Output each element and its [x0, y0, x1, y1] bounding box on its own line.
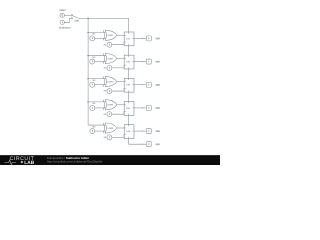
wire control line to carry-in: [78, 18, 128, 32]
arrowhead: [142, 107, 144, 109]
wire bus branch stage 1: [88, 31, 106, 33]
full adder FA2: [124, 55, 134, 69]
wire: [112, 112, 124, 115]
source A5: [107, 135, 112, 140]
junction: [87, 18, 89, 20]
junction: [87, 101, 89, 103]
source A4: [107, 112, 112, 117]
wire: [95, 130, 106, 132]
arrowhead: [142, 38, 144, 40]
source B5: [90, 129, 95, 134]
wire sum output: [134, 37, 146, 39]
label Ans4: [156, 107, 160, 109]
arrowhead: [142, 130, 144, 132]
svg-text:Adder: Adder: [59, 9, 66, 12]
full adder FA3: [124, 78, 134, 92]
footer bar: [0, 155, 220, 165]
wire bus branch stage 3: [88, 78, 106, 80]
wire: [112, 135, 124, 138]
wire xor output: [117, 34, 124, 36]
wire carry FA3 to FA5: [128, 92, 130, 101]
output indicator S3: [146, 82, 151, 87]
switch SW1: [71, 15, 80, 23]
wire carry out: [129, 138, 147, 144]
xor gate XOR5: [103, 123, 117, 133]
svg-text:XOR3: XOR3: [107, 80, 114, 83]
wire bus branch stage 2: [88, 55, 106, 57]
wire xor output: [117, 104, 124, 106]
source A1: [107, 42, 112, 47]
arrowhead: [142, 143, 144, 145]
full adder FA5: [124, 125, 134, 139]
output indicator S1: [146, 36, 151, 41]
svg-text:Subtractor: Subtractor: [59, 26, 71, 29]
wire sum output: [134, 107, 146, 109]
label Ans2: [156, 61, 160, 63]
wire control bus: [87, 18, 89, 125]
output indicator S5: [146, 129, 151, 134]
source V2: [60, 13, 64, 17]
wire: [95, 84, 106, 86]
wire: [64, 14, 71, 16]
xor gate XOR4: [103, 100, 117, 110]
wire: [95, 37, 106, 39]
output indicator S2: [146, 59, 151, 64]
wire xor output: [117, 81, 124, 83]
wire: [95, 107, 106, 109]
xor gate XOR1: [103, 30, 117, 40]
source A3: [107, 89, 112, 94]
full adder FA4: [124, 102, 134, 116]
wire carry FA1 to FA3: [128, 46, 130, 55]
wire: [112, 65, 124, 68]
junction: [87, 55, 89, 57]
wire: [64, 18, 71, 22]
svg-text:XOR5: XOR5: [107, 127, 114, 130]
svg-text:LAB: LAB: [24, 160, 34, 165]
xor gate XOR2: [103, 53, 117, 63]
svg-text:http://circuitlab.com/c/u9pkma: http://circuitlab.com/c/u9pkmad47ps25qtx…: [47, 159, 103, 163]
wire sum output: [134, 130, 146, 132]
label Ans5: [156, 130, 160, 132]
source B3: [90, 82, 95, 87]
wire: [112, 88, 124, 91]
arrowhead: [142, 61, 144, 63]
label Cout: [156, 143, 160, 145]
wire carry FA4 to FA6: [128, 115, 130, 124]
source B2: [90, 59, 95, 64]
wire bus branch stage 4: [88, 101, 106, 103]
junction: [87, 78, 89, 80]
arrowhead: [142, 84, 144, 86]
wire sum output: [134, 61, 146, 63]
xor gate XOR3: [103, 77, 117, 87]
source B4: [90, 105, 95, 110]
source A2: [107, 65, 112, 70]
wire: [112, 42, 124, 45]
svg-text:XOR2: XOR2: [107, 57, 114, 60]
source B1: [90, 36, 95, 41]
logo CircuitLab: [5, 156, 35, 166]
svg-text:SW1: SW1: [74, 20, 80, 23]
wire xor output: [117, 127, 124, 129]
wire sum output: [134, 84, 146, 86]
wire: [95, 61, 106, 63]
output indicator carry: [146, 142, 151, 147]
junction: [87, 32, 89, 34]
wire bus branch stage 5: [88, 124, 106, 126]
svg-text:XOR1: XOR1: [107, 34, 114, 37]
wire xor output: [117, 57, 124, 59]
label Ans1: [156, 38, 160, 40]
source V1: [60, 20, 64, 24]
wire carry FA2 to FA4: [128, 69, 130, 78]
label Ans3: [156, 84, 160, 86]
full adder FA1: [124, 32, 134, 46]
svg-text:XOR4: XOR4: [107, 104, 114, 107]
output indicator S4: [146, 105, 151, 110]
